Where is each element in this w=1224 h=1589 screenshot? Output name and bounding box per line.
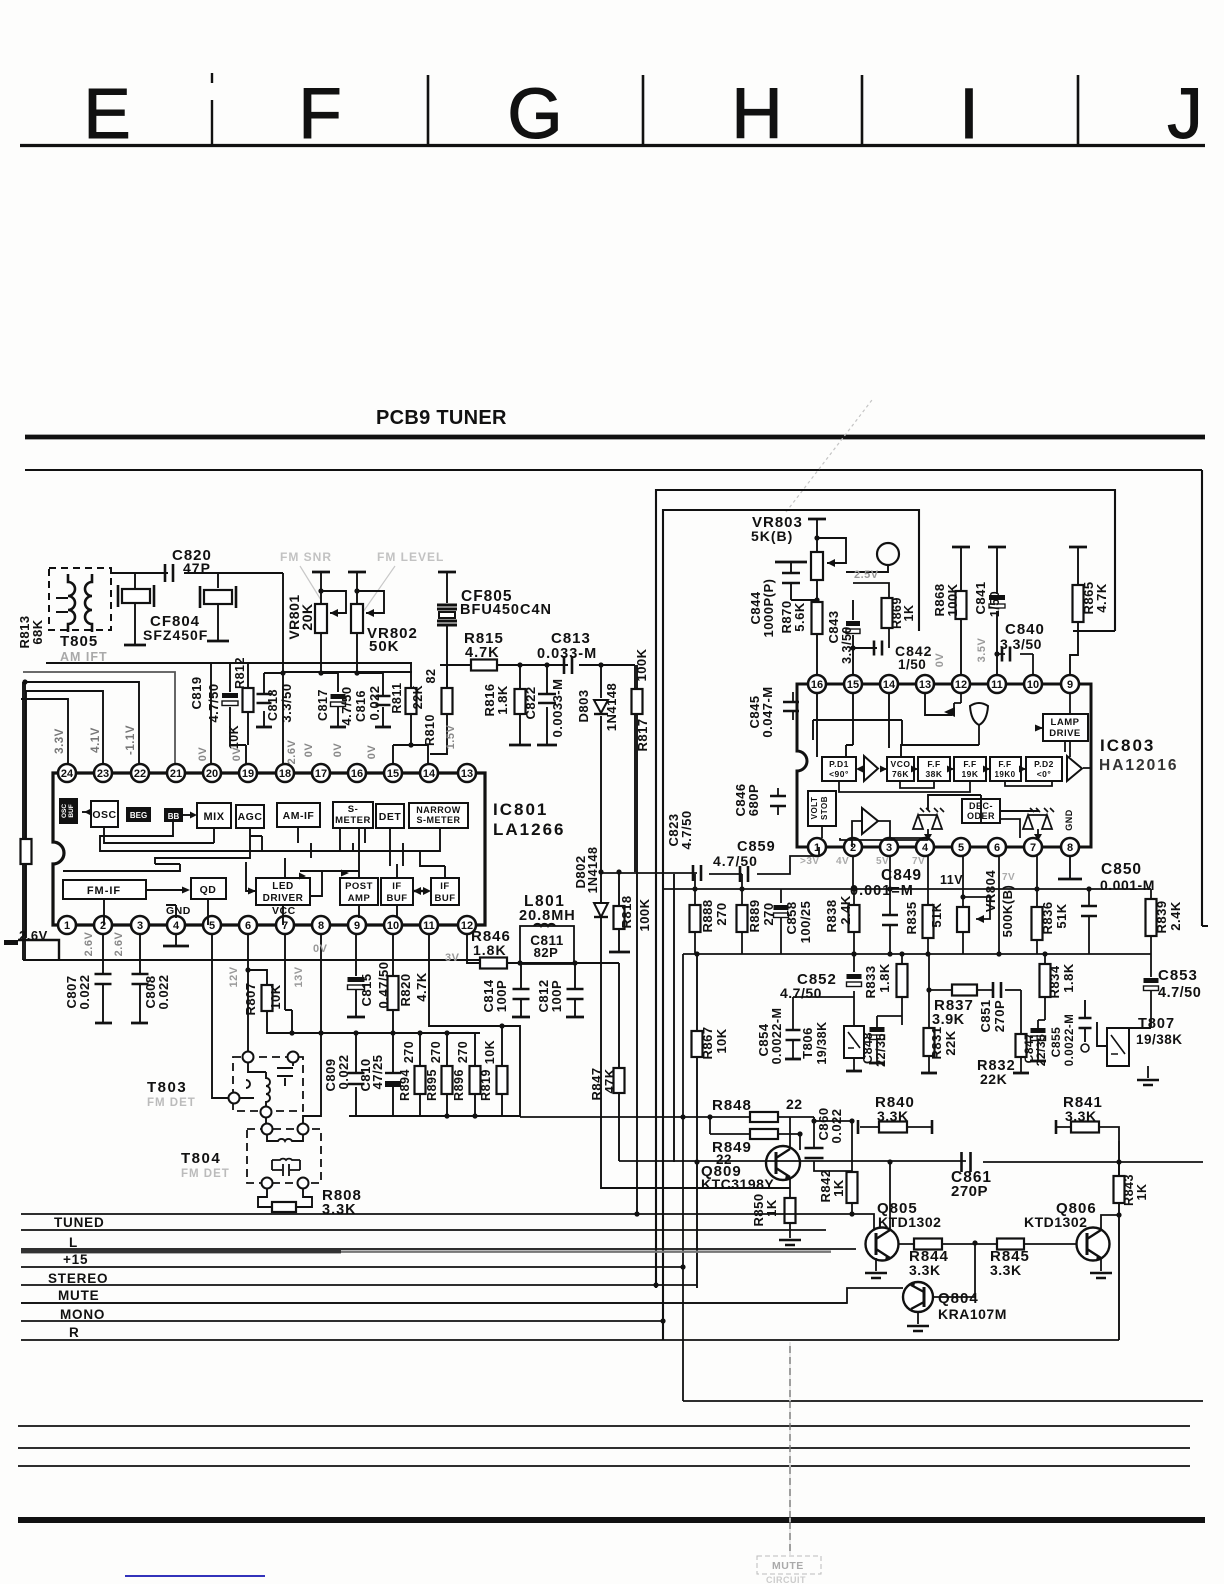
resistor R819 — [501, 1026, 503, 1116]
svg-text:E: E — [83, 75, 130, 154]
svg-text:R838: R838 — [824, 899, 839, 932]
potentiometer VR803 — [808, 518, 826, 521]
svg-text:0.022: 0.022 — [829, 1108, 844, 1143]
bus line TUNED — [21, 1229, 826, 1231]
T804 terminal circles — [262, 1124, 273, 1135]
svg-text:FM-IF: FM-IF — [87, 885, 121, 897]
svg-text:270: 270 — [456, 1041, 470, 1063]
IC801 bottom pins 1-12 — [58, 916, 76, 934]
transistor Q806 — [1077, 1228, 1110, 1261]
svg-text:100K: 100K — [945, 583, 960, 616]
transformer T805 windings — [68, 574, 75, 632]
svg-text:T805: T805 — [60, 633, 98, 650]
wire top net to pin18 — [230, 573, 283, 764]
svg-text:1: 1 — [64, 920, 70, 932]
svg-text:1000P(P): 1000P(P) — [761, 579, 776, 638]
svg-text:<0°: <0° — [1037, 769, 1052, 779]
block S-METER — [333, 802, 373, 828]
bus line STEREO — [21, 1284, 697, 1286]
svg-text:38K: 38K — [925, 769, 942, 779]
wire net y889 — [663, 888, 1151, 890]
svg-text:T806: T806 — [800, 1027, 815, 1059]
svg-text:10: 10 — [387, 920, 399, 932]
svg-text:C850: C850 — [1101, 861, 1142, 878]
svg-text:19/38K: 19/38K — [815, 1021, 829, 1064]
svg-text:VCO: VCO — [891, 759, 911, 769]
svg-text:4.7/50: 4.7/50 — [713, 853, 758, 869]
svg-text:R812: R812 — [233, 657, 247, 689]
svg-text:0.022: 0.022 — [367, 685, 382, 720]
capacitor C859 — [740, 866, 748, 882]
IC801 internal routing wires — [104, 827, 214, 843]
svg-text:15: 15 — [847, 679, 859, 691]
svg-text:12V: 12V — [228, 966, 240, 987]
resistor R831 — [928, 954, 930, 1072]
svg-text:C813: C813 — [551, 630, 591, 647]
potentiometer VR801 — [312, 571, 330, 574]
arrow FMIF to QD — [146, 889, 183, 891]
diode D803 — [600, 665, 602, 872]
transistor Q805 — [866, 1228, 899, 1261]
arrows between PLL blocks — [856, 766, 1026, 773]
svg-text:3: 3 — [137, 920, 143, 932]
svg-text:R889: R889 — [747, 899, 762, 932]
block FM-IF — [63, 880, 146, 899]
svg-text:0V: 0V — [231, 747, 243, 762]
buffer triangle C — [862, 808, 878, 834]
resistor R848 — [520, 1116, 814, 1118]
Q805 emitter ground — [875, 1258, 877, 1271]
wire y963 net through L801 — [507, 962, 619, 964]
svg-text:9: 9 — [1067, 679, 1073, 691]
bus line MUTE — [21, 1302, 847, 1304]
svg-text:Q804: Q804 — [938, 1290, 979, 1307]
inductor L801 box with C811 — [520, 926, 574, 964]
svg-text:H: H — [731, 75, 782, 154]
svg-text:R888: R888 — [700, 899, 715, 932]
double diode A — [913, 815, 942, 829]
wire horizontal net y1033 — [267, 1032, 480, 1034]
resistor R895 — [446, 1033, 448, 1116]
svg-text:22/35: 22/35 — [874, 1033, 888, 1067]
svg-text:7V: 7V — [1002, 872, 1015, 883]
capacitor C816 — [357, 673, 383, 726]
resistor R840 — [857, 1120, 860, 1134]
svg-text:>3V: >3V — [800, 856, 820, 867]
svg-text:100P: 100P — [494, 980, 509, 1012]
capacitor C820 — [165, 564, 173, 582]
svg-text:F.F: F.F — [998, 759, 1011, 769]
svg-text:0V: 0V — [366, 745, 378, 760]
svg-text:GND: GND — [166, 905, 191, 917]
svg-text:47K: 47K — [602, 1068, 617, 1093]
capacitor C814 — [520, 963, 522, 1016]
Q804 input step from MUTE bus — [21, 1288, 903, 1303]
svg-text:R831: R831 — [929, 1026, 944, 1059]
resistor R811 — [410, 663, 412, 745]
bus line R — [21, 1339, 1119, 1341]
capacitor C845 — [792, 692, 794, 720]
svg-text:R894: R894 — [398, 1069, 412, 1101]
svg-text:22: 22 — [134, 768, 146, 780]
svg-text:0.022: 0.022 — [336, 1054, 351, 1089]
svg-text:BB: BB — [168, 812, 180, 821]
svg-text:270P: 270P — [951, 1183, 988, 1200]
svg-text:3: 3 — [886, 842, 892, 854]
resistor R813 — [21, 839, 32, 864]
capacitor C818 — [264, 673, 283, 727]
svg-text:19/38K: 19/38K — [1136, 1032, 1183, 1047]
resistor R833 — [901, 954, 903, 1025]
svg-text:4: 4 — [922, 842, 929, 854]
svg-text:13: 13 — [919, 679, 931, 691]
svg-text:7: 7 — [1030, 842, 1036, 854]
block IF BUF 1 — [381, 878, 413, 905]
svg-text:4.7/50: 4.7/50 — [679, 810, 694, 849]
svg-text:MONO: MONO — [60, 1307, 105, 1322]
svg-text:C817: C817 — [316, 689, 330, 721]
capacitor C846 — [777, 788, 779, 815]
blue pen mark — [125, 1575, 265, 1577]
svg-text:R836: R836 — [1040, 901, 1055, 934]
svg-text:1/50: 1/50 — [988, 591, 1002, 617]
resistor R812 — [246, 663, 248, 764]
svg-text:47/25: 47/25 — [370, 1054, 385, 1089]
svg-text:4.7/50: 4.7/50 — [780, 985, 822, 1001]
svg-text:2.6V: 2.6V — [19, 928, 48, 943]
svg-text:22: 22 — [786, 1096, 803, 1112]
svg-text:2.4K: 2.4K — [838, 895, 853, 925]
capacitor C813 — [564, 656, 572, 674]
resistor R808 with jog leads — [258, 1189, 312, 1207]
resistor R841 — [1055, 1120, 1058, 1134]
svg-text:T807: T807 — [1138, 1016, 1175, 1032]
title thick rule — [25, 435, 1205, 440]
op-amp U IC803 body — [797, 684, 1091, 847]
wire net y954 — [683, 954, 1151, 1401]
svg-text:2: 2 — [100, 920, 106, 932]
gate symbol near pin12 — [970, 703, 988, 725]
svg-text:51K: 51K — [929, 902, 944, 927]
svg-text:4.7/50: 4.7/50 — [339, 686, 354, 725]
resistor R896 — [474, 1033, 476, 1116]
block LAMP DRIVE — [1043, 714, 1088, 741]
block AGC — [236, 805, 264, 828]
wire net y1162 — [619, 1161, 1203, 1162]
svg-text:KTD1302: KTD1302 — [1024, 1214, 1087, 1230]
svg-text:T804: T804 — [181, 1150, 221, 1167]
svg-text:5V: 5V — [876, 856, 889, 867]
resistor R869 — [853, 583, 889, 648]
wire bottom net y1116 — [349, 1115, 520, 1117]
bottom long line 2 — [18, 1447, 1190, 1449]
svg-text:8: 8 — [318, 920, 324, 932]
block DET — [376, 804, 404, 828]
svg-text:0V: 0V — [313, 943, 328, 955]
svg-text:270: 270 — [402, 1041, 416, 1063]
svg-text:F.F: F.F — [927, 759, 940, 769]
svg-text:3.3/50: 3.3/50 — [840, 626, 854, 664]
svg-text:STEREO: STEREO — [48, 1271, 108, 1286]
wire R811 to pins 15 14 — [393, 745, 428, 764]
resistor R865 — [1069, 546, 1087, 549]
resistor R894 — [419, 1033, 421, 1116]
block LED DRIVER — [256, 878, 310, 905]
svg-text:1K: 1K — [1135, 1184, 1149, 1201]
svg-text:POST: POST — [345, 881, 373, 892]
svg-text:4.1V: 4.1V — [90, 727, 102, 753]
wire pin5 riser to T803 — [212, 934, 229, 1098]
svg-text:17: 17 — [315, 768, 327, 780]
svg-text:1N4148: 1N4148 — [586, 847, 600, 894]
resistor R889 — [741, 874, 743, 954]
arrow BB to MIX — [183, 814, 192, 816]
Q804 base from R844 R845 node — [933, 1244, 975, 1297]
svg-text:S-: S- — [348, 804, 359, 815]
svg-text:3.3K: 3.3K — [322, 1202, 357, 1218]
svg-text:0V: 0V — [303, 743, 315, 758]
double diode B — [1023, 815, 1052, 829]
header column tick marks — [211, 73, 213, 145]
svg-text:4: 4 — [173, 920, 180, 932]
capacitor C815 — [355, 934, 357, 976]
resistor R868 — [952, 546, 970, 549]
faint diagonal dotted lead — [786, 400, 872, 512]
arrow OSC to OSCBUF — [82, 811, 91, 813]
svg-text:IF: IF — [440, 881, 449, 892]
IC803 internal routing — [813, 693, 902, 757]
potentiometer VR804 — [962, 856, 964, 954]
svg-text:1/50: 1/50 — [898, 657, 926, 672]
wire R815 C813 net — [440, 665, 635, 872]
svg-text:20.8MH: 20.8MH — [519, 908, 576, 924]
svg-text:5K(B): 5K(B) — [751, 528, 793, 544]
resistor R845 — [975, 1243, 1077, 1245]
svg-text:23: 23 — [97, 768, 109, 780]
svg-text:270P: 270P — [992, 1000, 1007, 1032]
svg-text:I: I — [959, 75, 979, 154]
capacitor C812 — [574, 963, 576, 1016]
svg-text:<90°: <90° — [829, 769, 849, 779]
svg-text:SFZ450F: SFZ450F — [143, 627, 208, 643]
transistor Q809 — [766, 1146, 800, 1180]
svg-text:14: 14 — [883, 679, 896, 691]
svg-text:2.4K: 2.4K — [1168, 901, 1183, 931]
resistor R837 — [929, 989, 993, 991]
resistor R844 — [898, 1243, 975, 1245]
svg-text:4.7K: 4.7K — [414, 972, 429, 1002]
svg-text:C854: C854 — [756, 1023, 771, 1056]
block FF 38K — [918, 757, 950, 781]
svg-text:7V: 7V — [912, 856, 925, 867]
svg-text:3.3K: 3.3K — [1065, 1108, 1097, 1124]
transformer T803 dashed box — [233, 1057, 303, 1111]
wire pin12 to R846 — [467, 934, 480, 963]
svg-text:BUF: BUF — [68, 804, 75, 817]
arrow into LAMP DRIVE — [1035, 727, 1043, 729]
svg-text:10K: 10K — [268, 984, 283, 1009]
svg-text:500K(B): 500K(B) — [1000, 885, 1015, 938]
svg-text:-1.1V: -1.1V — [125, 725, 137, 755]
svg-text:19K0: 19K0 — [994, 770, 1015, 779]
block VOLT STOB — [808, 791, 836, 826]
svg-text:5: 5 — [958, 842, 964, 854]
svg-text:5.6K: 5.6K — [792, 602, 807, 632]
svg-text:14: 14 — [423, 768, 436, 780]
svg-text:8: 8 — [1067, 842, 1073, 854]
svg-text:2.6V: 2.6V — [286, 740, 298, 765]
svg-text:PCB9 TUNER: PCB9 TUNER — [376, 407, 507, 429]
capacitor C844 — [775, 561, 807, 564]
resistor R818 — [618, 872, 620, 951]
svg-text:R810: R810 — [423, 714, 437, 746]
svg-text:11: 11 — [991, 679, 1003, 691]
svg-text:22K: 22K — [943, 1030, 958, 1055]
capacitor C849 — [889, 856, 891, 954]
bus line L — [21, 1248, 856, 1250]
block MIX — [197, 803, 231, 828]
svg-text:BFU450C4N: BFU450C4N — [460, 602, 552, 618]
wire T805 top to C820 — [110, 572, 230, 574]
svg-text:0V: 0V — [197, 747, 209, 762]
capacitor C807 — [102, 934, 104, 1022]
resistor R847 — [618, 963, 620, 1161]
wire collector node — [814, 1120, 852, 1122]
IC803 bottom pins 1-8 — [808, 838, 826, 856]
discriminator T807 — [1107, 1028, 1129, 1066]
block BEG — [126, 807, 151, 822]
resistor R807 — [262, 985, 273, 1011]
svg-text:6: 6 — [994, 842, 1000, 854]
capacitor C850 — [1088, 889, 1090, 954]
capacitor C848 — [870, 1027, 885, 1032]
bus smear artifact — [21, 1250, 341, 1253]
resistor R807 bracket — [248, 970, 292, 1033]
svg-text:100K: 100K — [637, 898, 652, 931]
svg-text:100/25: 100/25 — [798, 901, 813, 944]
resistor R870 — [791, 600, 817, 657]
wire y672 net — [283, 671, 412, 673]
svg-text:0.001-M: 0.001-M — [1100, 877, 1155, 893]
wire pin11 riser to y1026 — [429, 934, 520, 1117]
capacitor C852 — [853, 954, 855, 997]
wire T803 to T804 — [265, 1117, 267, 1124]
svg-text:3.3K: 3.3K — [877, 1108, 909, 1124]
svg-text:16: 16 — [351, 768, 363, 780]
svg-text:2: 2 — [850, 842, 856, 854]
capacitor C843 — [852, 600, 854, 684]
svg-text:50K: 50K — [369, 638, 400, 655]
svg-text:19K: 19K — [961, 769, 978, 779]
capacitor C853 — [1150, 954, 1152, 1028]
svg-text:J: J — [1167, 75, 1203, 154]
svg-text:11V: 11V — [940, 873, 963, 887]
svg-text:24: 24 — [61, 768, 74, 780]
resistor R867 — [696, 954, 698, 1288]
svg-text:C855: C855 — [1049, 1027, 1063, 1058]
wire to ceramic filters — [135, 573, 218, 588]
page right border — [1202, 470, 1208, 926]
svg-text:3.3K: 3.3K — [990, 1262, 1022, 1278]
svg-text:C858: C858 — [784, 901, 799, 934]
block IF BUF 2 — [431, 878, 459, 905]
resistor R836 — [1036, 856, 1038, 954]
svg-text:13: 13 — [461, 768, 473, 780]
resistor R843 — [1118, 1162, 1120, 1176]
svg-text:1.8K: 1.8K — [473, 942, 507, 958]
svg-text:MIX: MIX — [203, 811, 224, 823]
svg-text:1K: 1K — [902, 605, 916, 622]
buffer triangle B — [1067, 756, 1082, 781]
svg-text:BUF: BUF — [386, 893, 407, 904]
wire pin8 riser — [303, 934, 321, 1124]
svg-text:21: 21 — [170, 768, 182, 780]
svg-text:100K: 100K — [634, 648, 649, 681]
resistor R839 — [1150, 889, 1152, 954]
resistor R820 — [392, 934, 394, 1033]
frame stub — [1073, 630, 1115, 632]
svg-text:0.022: 0.022 — [156, 974, 171, 1009]
svg-text:F.F: F.F — [963, 759, 976, 769]
ceramic filter CF804 element B — [204, 590, 232, 604]
svg-text:KTD1302: KTD1302 — [878, 1214, 941, 1230]
svg-text:R820: R820 — [398, 973, 413, 1006]
svg-text:22K: 22K — [411, 685, 425, 709]
svg-text:5: 5 — [209, 920, 215, 932]
bus line MONO — [21, 1320, 664, 1322]
block VCO 76K — [887, 757, 914, 781]
svg-text:TUNED: TUNED — [54, 1215, 105, 1230]
capacitor C822 — [546, 665, 548, 744]
svg-text:C819: C819 — [189, 676, 204, 709]
inner frame box right circuit — [663, 510, 919, 1340]
wire vertical x674 — [673, 874, 675, 1162]
block QD — [191, 878, 226, 899]
capacitor C851 — [993, 982, 1001, 998]
staircase wires from left bus — [23, 672, 175, 764]
svg-text:22/35: 22/35 — [1034, 1034, 1048, 1067]
svg-text:DET: DET — [379, 811, 402, 823]
svg-text:MUTE: MUTE — [58, 1288, 99, 1303]
svg-text:3.3/50: 3.3/50 — [1000, 636, 1042, 652]
block POST AMP — [340, 878, 378, 905]
svg-text:C849: C849 — [881, 867, 922, 884]
svg-text:+15: +15 — [63, 1252, 88, 1267]
potentiometer VR802 — [348, 571, 366, 574]
capacitor C809 — [355, 1033, 357, 1116]
svg-text:R818: R818 — [619, 895, 634, 928]
ground under pin8 — [1069, 856, 1071, 878]
svg-text:18: 18 — [279, 768, 291, 780]
capacitor C854 — [793, 997, 854, 1058]
wire pin2 riser — [852, 856, 854, 889]
svg-text:82P: 82P — [534, 945, 559, 960]
svg-text:HA12016: HA12016 — [1099, 757, 1179, 774]
svg-text:LAMP: LAMP — [1051, 717, 1080, 728]
resistor R846 — [480, 958, 507, 969]
svg-text:R896: R896 — [452, 1069, 466, 1101]
svg-text:10: 10 — [1027, 679, 1039, 691]
svg-text:1.8K: 1.8K — [877, 963, 892, 993]
svg-text:R835: R835 — [904, 901, 919, 934]
bottom long line 3 — [18, 1465, 1190, 1467]
svg-text:R848: R848 — [712, 1097, 752, 1114]
svg-text:3.3V: 3.3V — [54, 728, 66, 754]
svg-text:STOB: STOB — [820, 796, 829, 820]
capacitor C840 — [997, 654, 1033, 684]
svg-text:CIRCUIT: CIRCUIT — [766, 1575, 806, 1584]
svg-text:13V: 13V — [293, 966, 305, 987]
